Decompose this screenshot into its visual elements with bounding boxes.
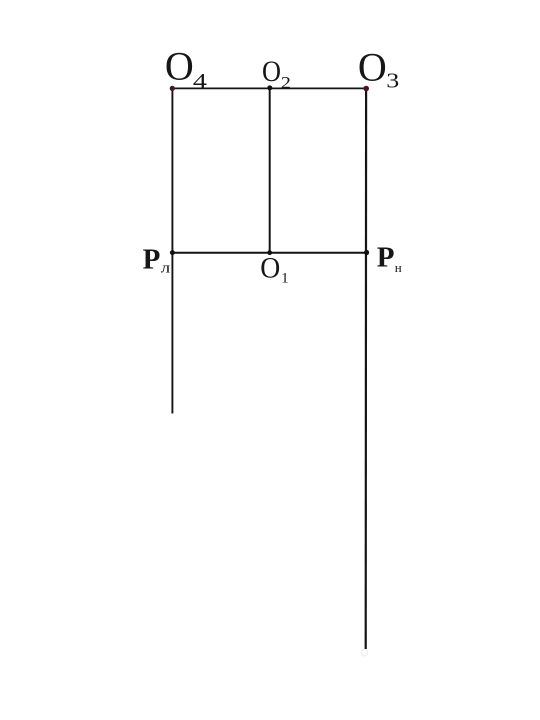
svg-text:Р: Р [143,243,161,275]
label O2 [262,55,291,92]
faint ring at bottom of right line [361,650,367,656]
label Pн [377,241,402,274]
node O2 (black point) [267,85,272,90]
svg-text:2: 2 [281,73,291,92]
wire O2-O1 (center vertical line) [269,88,271,253]
wire O3 to bottom (right vertical line) [365,88,368,649]
wire O4 to below Pл (left vertical line) [171,88,173,413]
svg-text:1: 1 [281,271,289,287]
svg-text:O: O [260,252,280,285]
svg-text:O: O [165,43,194,88]
label Pл [143,243,171,276]
node O4 (red point) [170,86,175,91]
svg-text:3: 3 [386,69,399,93]
svg-text:O: O [358,44,387,89]
label O4 [165,43,208,93]
node Pн (black point) [364,250,369,255]
svg-text:н: н [395,260,402,275]
svg-text:л: л [161,261,171,277]
svg-text:Р: Р [377,241,395,273]
label O1 [260,252,288,287]
wire O4-O3 (top horizontal line) [172,87,367,89]
wire Pл-Pн (middle horizontal line) [172,252,367,254]
node Pл (black point) [170,250,175,255]
svg-text:O: O [262,55,281,88]
node O1 (black point) [267,250,272,255]
svg-text:4: 4 [193,69,208,93]
label O3 [358,44,399,92]
node O3 (red point) [363,86,369,92]
